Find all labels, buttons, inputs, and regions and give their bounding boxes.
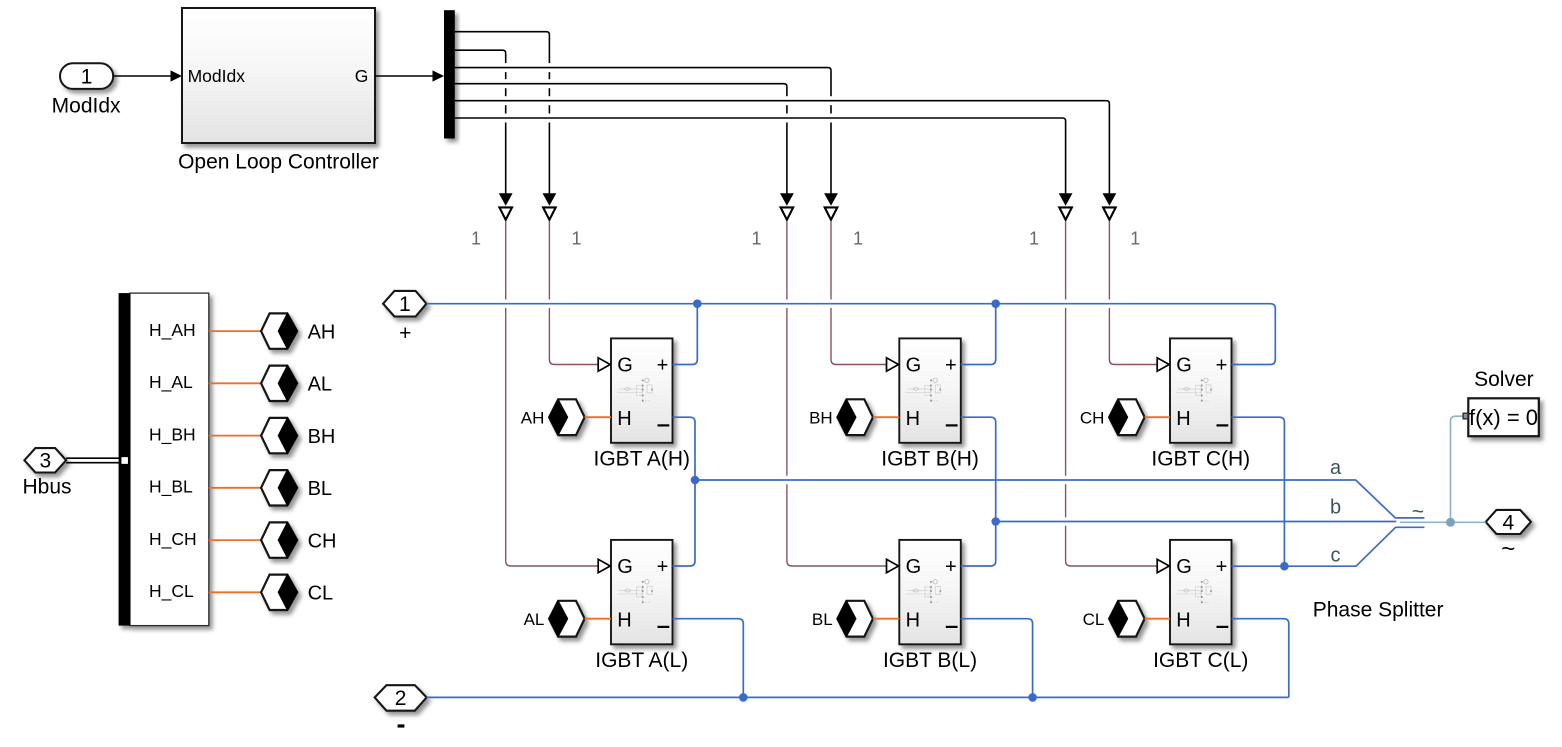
inport 3 (Hbus) hexagon — [24, 448, 66, 472]
svg-text:IGBT C(L): IGBT C(L) — [1153, 649, 1248, 672]
IGBT B(L) block — [899, 540, 961, 644]
svg-text:H: H — [906, 408, 920, 430]
svg-text:G: G — [355, 66, 369, 86]
wire G1 to IGBT A(H) vertical — [548, 35, 550, 63]
wire H_CL to goto tag CL — [209, 591, 261, 593]
node +bus/B — [991, 299, 1000, 308]
svg-text:BL: BL — [308, 478, 332, 500]
wire B(L)- to - bus — [961, 619, 1033, 698]
svg-text:H_AH: H_AH — [149, 320, 196, 341]
svg-text:CH: CH — [308, 530, 337, 552]
from tag BH — [837, 399, 873, 435]
bus selector block — [119, 293, 209, 625]
PS converter 5 (hollow triangle) — [1103, 207, 1116, 219]
svg-text:+: + — [945, 355, 957, 377]
wire H_BH to goto tag BH — [209, 435, 261, 437]
goto tag BL — [261, 470, 297, 505]
wire A(L)+ up to node a — [673, 480, 696, 566]
svg-text:H: H — [906, 610, 920, 632]
wire G3 to IGBT B(H) vertical — [830, 71, 832, 97]
svg-text:H_BH: H_BH — [149, 424, 196, 445]
svg-text:3: 3 — [40, 450, 52, 473]
arrowhead into PS converter 4 — [780, 193, 794, 206]
svg-text:+: + — [657, 355, 669, 377]
node +bus/A — [693, 299, 702, 308]
wire from tag CH to H port — [1145, 416, 1170, 418]
G port triangle of IGBT A(L) — [598, 559, 610, 572]
wire H_AL to goto tag AL — [209, 382, 261, 384]
svg-text:AH: AH — [521, 408, 545, 427]
wire H_BL to goto tag BL — [209, 487, 261, 489]
PS converter 6 (hollow triangle) — [1059, 207, 1072, 219]
wire G4 to IGBT B(L) horizontal — [455, 84, 787, 87]
physical wire gate B(H) — [830, 221, 832, 300]
G port triangle of IGBT C(H) — [1157, 358, 1169, 371]
G port triangle of IGBT A(H) — [598, 358, 610, 371]
from tag AH — [549, 399, 585, 435]
arrowhead into PS converter 1 — [543, 193, 557, 206]
wire H_CH to goto tag CH — [209, 539, 261, 541]
arrowhead into PS converter 3 — [824, 193, 838, 206]
solver port square — [1463, 413, 1468, 419]
svg-text:1: 1 — [399, 293, 411, 316]
svg-text:G: G — [906, 355, 922, 377]
arrowhead into PS converter 6 — [1059, 193, 1073, 206]
goto tag CH — [261, 522, 297, 557]
subsystem Open Loop Controller — [182, 8, 375, 143]
svg-text:a: a — [1330, 457, 1342, 479]
node solver tap — [1446, 518, 1455, 527]
svg-text:H_AL: H_AL — [149, 372, 193, 393]
svg-text:IGBT A(H): IGBT A(H) — [594, 447, 690, 470]
inport 1 (ModIdx) stadium block — [60, 63, 113, 89]
svg-text:1: 1 — [853, 229, 863, 249]
svg-text:H: H — [617, 610, 631, 632]
node b — [991, 517, 1000, 526]
wire G1 to IGBT A(H) horizontal — [455, 32, 549, 35]
goto tag BH — [261, 418, 297, 453]
svg-text:Hbus: Hbus — [22, 475, 71, 498]
svg-text:IGBT C(H): IGBT C(H) — [1151, 447, 1250, 470]
wire G5 to IGBT C(H) vertical — [1108, 104, 1110, 194]
wire to solver — [1451, 416, 1463, 522]
wire splitter output to port 4 — [1400, 521, 1486, 523]
svg-text:ModIdx: ModIdx — [52, 95, 121, 118]
svg-text:+: + — [945, 556, 957, 578]
wire C(H)- down to node c — [1232, 417, 1285, 566]
svg-text:G: G — [1176, 355, 1192, 377]
wire G6 to IGBT C(L) vertical — [1065, 121, 1067, 193]
svg-text:BL: BL — [812, 610, 833, 629]
svg-text:b: b — [1330, 496, 1341, 518]
svg-text:ModIdx: ModIdx — [188, 66, 246, 86]
svg-text:H: H — [617, 408, 631, 430]
goto tag CL — [261, 575, 297, 610]
bus input port square — [121, 456, 129, 464]
wire phase c (C(L)+) to splitter — [1232, 527, 1425, 566]
PS converter 3 (hollow triangle) — [825, 207, 838, 219]
IGBT C(H) block — [1170, 338, 1232, 442]
G port triangle of IGBT B(H) — [887, 358, 899, 371]
svg-text:1: 1 — [1029, 229, 1039, 249]
G port triangle of IGBT C(L) — [1157, 559, 1169, 572]
outport 4 (~) hexagon — [1486, 510, 1531, 534]
demux (gate signal bus) — [444, 10, 455, 138]
wire G3 to IGBT B(H) horizontal — [455, 68, 831, 71]
wire G5 to IGBT C(H) horizontal — [455, 101, 1109, 104]
wire B(H)+ to + bus — [961, 304, 996, 365]
IGBT B(H) block — [899, 338, 961, 442]
wire from tag AL to H port — [585, 618, 611, 620]
IGBT A(L) block — [611, 540, 673, 644]
wire H_AH to goto tag AH — [209, 330, 261, 332]
physical wire gate C(H) — [1108, 221, 1110, 300]
wire G6 to IGBT C(L) horizontal — [455, 118, 1066, 121]
wire B(H)- down to node b — [961, 417, 996, 521]
svg-text:H_BL: H_BL — [149, 477, 193, 498]
svg-text:Solver: Solver — [1474, 368, 1534, 391]
wire C(L)- to - bus — [1232, 619, 1289, 698]
svg-text:Phase Splitter: Phase Splitter — [1313, 598, 1444, 621]
svg-text:G: G — [617, 556, 633, 578]
inport 1 (+) hexagon — [383, 291, 426, 317]
wire phase a to splitter — [695, 480, 1424, 518]
node a — [691, 476, 700, 485]
PS converter 2 (hollow triangle) — [499, 207, 512, 219]
svg-text:+: + — [1216, 556, 1228, 578]
wire B(L)+ up to node b — [961, 522, 996, 567]
IGBT C(L) block — [1170, 540, 1232, 644]
wire phase b to splitter — [996, 521, 1397, 523]
svg-text:IGBT B(H): IGBT B(H) — [881, 447, 979, 470]
arrowhead into PS converter 5 — [1103, 193, 1117, 206]
wire ModIdx to controller — [113, 75, 171, 77]
IGBT A(H) block — [611, 338, 673, 442]
wire from tag AH to H port — [585, 416, 611, 418]
goto tag AL — [261, 366, 297, 401]
from tag CL — [1109, 601, 1145, 637]
label - — [398, 724, 405, 727]
arrowhead into PS converter 2 — [499, 193, 513, 206]
svg-text:BH: BH — [308, 426, 336, 448]
wire G2 to IGBT A(L) vertical — [505, 53, 507, 63]
svg-text:f(x) = 0: f(x) = 0 — [1469, 405, 1538, 430]
svg-text:c: c — [1331, 544, 1341, 566]
svg-text:H_CH: H_CH — [149, 529, 197, 550]
solver block f(x) = 0 — [1468, 398, 1539, 436]
physical wire gate A(L) — [505, 221, 507, 300]
inport 2 (-) hexagon — [375, 685, 427, 711]
svg-text:2: 2 — [395, 687, 407, 710]
svg-text:1: 1 — [471, 229, 481, 249]
svg-text:IGBT A(L): IGBT A(L) — [595, 649, 688, 672]
goto tag AH — [261, 313, 297, 348]
svg-text:CL: CL — [1083, 610, 1105, 629]
svg-text:+: + — [657, 556, 669, 578]
wire from tag CL to H port — [1145, 618, 1170, 620]
svg-text:AH: AH — [308, 321, 336, 343]
wire from tag BL to H port — [873, 618, 899, 620]
from tag BL — [837, 601, 873, 637]
svg-text:~: ~ — [1501, 535, 1515, 562]
wire G2 to IGBT A(L) horizontal — [455, 50, 506, 53]
node c — [1280, 562, 1289, 571]
svg-text:1: 1 — [1130, 229, 1140, 249]
svg-text:~: ~ — [1412, 501, 1424, 524]
svg-text:G: G — [617, 355, 633, 377]
svg-text:+: + — [1216, 355, 1228, 377]
wire A(H)+ to + bus — [673, 304, 698, 365]
svg-text:4: 4 — [1502, 511, 1514, 534]
svg-text:G: G — [1176, 556, 1192, 578]
wire from tag BH to H port — [873, 416, 899, 418]
svg-text:Open Loop Controller: Open Loop Controller — [178, 150, 379, 173]
svg-text:IGBT B(L): IGBT B(L) — [883, 649, 977, 672]
wire + bus (port 1 to C(H)+) — [426, 304, 1275, 365]
node -bus/A — [739, 693, 748, 702]
svg-text:H: H — [1176, 408, 1190, 430]
bus wire Hbus to bus selector — [66, 457, 120, 459]
PS converter 1 (hollow triangle) — [543, 207, 556, 219]
node -bus/B — [1028, 693, 1037, 702]
physical wire gate A(H) — [548, 221, 550, 300]
svg-text:G: G — [906, 556, 922, 578]
PS converter 4 (hollow triangle) — [781, 207, 794, 219]
svg-text:BH: BH — [809, 408, 833, 427]
physical wire gate B(L) — [786, 221, 788, 300]
svg-text:AL: AL — [524, 610, 545, 629]
svg-text:1: 1 — [751, 229, 761, 249]
wire A(H)- down to node a — [673, 417, 696, 480]
wire G output to demux — [375, 75, 433, 77]
physical wire gate C(L) — [1065, 221, 1067, 300]
wire G4 to IGBT B(L) vertical — [786, 87, 788, 97]
svg-text:+: + — [399, 322, 411, 345]
wire - bus (port 2) — [427, 696, 1289, 698]
from tag CH — [1109, 399, 1145, 435]
svg-text:AL: AL — [308, 374, 332, 396]
svg-text:1: 1 — [571, 229, 581, 249]
from tag AL — [549, 601, 585, 637]
svg-text:H: H — [1176, 610, 1190, 632]
G port triangle of IGBT B(L) — [887, 559, 899, 572]
svg-text:CH: CH — [1080, 408, 1105, 427]
svg-text:CL: CL — [308, 583, 334, 605]
svg-text:H_CL: H_CL — [149, 581, 194, 602]
svg-text:1: 1 — [81, 65, 93, 88]
wire A(L)- to - bus — [673, 619, 744, 698]
